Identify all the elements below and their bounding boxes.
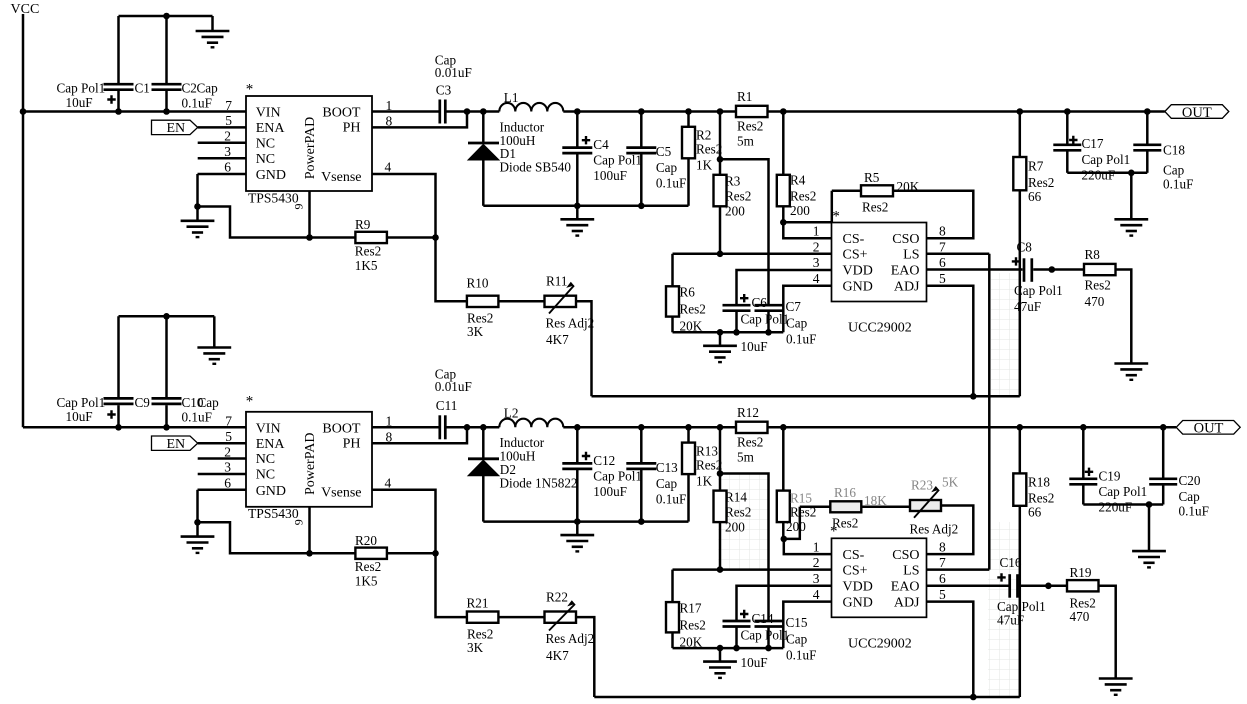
svg-text:Res2: Res2 <box>737 434 763 449</box>
capacitor C16 47uF <box>997 555 1046 628</box>
capacitor C17 220uF <box>1053 112 1130 183</box>
wire BOOT pin 1 to C11 <box>372 426 439 429</box>
svg-text:R13: R13 <box>696 443 718 458</box>
svg-text:Diode SB540: Diode SB540 <box>500 160 572 175</box>
svg-text:Res Adj2: Res Adj2 <box>546 631 595 646</box>
resistor R9 1K5 <box>355 217 387 273</box>
wire local analog ground rail <box>673 286 832 346</box>
IC U1 TPS5430 <box>224 81 392 209</box>
svg-text:Cap Pol1: Cap Pol1 <box>593 468 642 483</box>
svg-text:1K5: 1K5 <box>355 574 378 589</box>
wire Vsense pin 4 down to divider (bottom) <box>372 490 467 617</box>
wire ADJ row (bottom) <box>594 694 1020 701</box>
wire GND net jog to R20 row <box>198 522 356 553</box>
capacitor C10 0.1uF <box>152 316 220 427</box>
svg-text:ADJ: ADJ <box>894 595 920 610</box>
svg-text:470: 470 <box>1085 294 1105 309</box>
svg-text:LS: LS <box>903 248 919 263</box>
svg-text:4: 4 <box>385 160 392 175</box>
svg-text:R18: R18 <box>1028 475 1050 490</box>
svg-text:2: 2 <box>813 239 820 254</box>
svg-text:*: * <box>246 393 254 409</box>
wire NC pin 2 stub <box>198 141 246 144</box>
wire R22 down to ADJ row (bottom) <box>576 617 595 697</box>
svg-text:BOOT: BOOT <box>322 421 361 436</box>
svg-text:C15: C15 <box>786 615 808 630</box>
svg-text:Cap: Cap <box>656 476 678 491</box>
resistor R6 20K <box>666 254 706 334</box>
svg-text:0.1uF: 0.1uF <box>656 491 686 506</box>
capacitor C6 10uF <box>723 294 790 354</box>
wire R5 to CSO pin 8 <box>893 191 973 239</box>
svg-text:C17: C17 <box>1082 136 1104 151</box>
svg-text:CSO: CSO <box>892 232 919 247</box>
svg-text:C1: C1 <box>135 81 150 96</box>
svg-text:C13: C13 <box>656 460 678 475</box>
svg-text:C3: C3 <box>436 82 452 97</box>
svg-text:8: 8 <box>939 224 946 239</box>
resistor R10 3K <box>467 276 499 340</box>
svg-text:VIN: VIN <box>256 106 281 121</box>
wire NC pin 3 stub <box>198 157 246 160</box>
svg-text:EN: EN <box>167 437 186 452</box>
svg-text:PowerPAD: PowerPAD <box>303 433 318 496</box>
svg-text:UCC29002: UCC29002 <box>848 321 912 336</box>
wire ENA pin 5 (bottom) <box>198 442 246 445</box>
wire Vsense pin 4 down to divider <box>372 174 467 301</box>
wire GND pin 6 to ground <box>194 174 246 221</box>
resistor R14 200 (shunt left tap) <box>714 427 752 569</box>
wire output rail right of shunt <box>768 108 1165 115</box>
svg-text:1K: 1K <box>696 158 713 173</box>
svg-text:200: 200 <box>725 519 745 534</box>
svg-text:Res2: Res2 <box>680 302 706 317</box>
svg-text:CS+: CS+ <box>843 248 868 263</box>
wire CS- node to R16 and pin 1 (bottom) <box>784 507 832 554</box>
ground output filter (top) <box>560 219 594 235</box>
wire C8 to R8 <box>1033 266 1084 273</box>
capacitor C20 0.1uF <box>1149 427 1209 518</box>
capacitor C2 0.1uF <box>152 16 219 112</box>
wire C19-C20 ground link <box>1083 501 1163 551</box>
svg-text:0.1uF: 0.1uF <box>786 332 816 347</box>
svg-text:Res2: Res2 <box>1028 491 1054 506</box>
wire NC pin 3 stub (bottom) <box>198 473 246 476</box>
svg-text:R10: R10 <box>467 276 489 291</box>
svg-text:R15: R15 <box>790 490 812 505</box>
wire C17-C18 ground link <box>1067 170 1147 220</box>
svg-text:5K: 5K <box>942 475 959 490</box>
svg-text:VCC: VCC <box>11 2 40 17</box>
capacitor C19 220uF <box>1069 427 1147 514</box>
svg-text:7: 7 <box>225 414 232 429</box>
svg-text:1: 1 <box>813 539 820 554</box>
wire LS pin 7 row (bottom, to share bus) <box>927 568 990 571</box>
svg-text:0.01uF: 0.01uF <box>435 65 472 80</box>
svg-text:R8: R8 <box>1085 247 1101 262</box>
wire R16 to R23 <box>861 506 910 509</box>
svg-text:6: 6 <box>224 475 231 490</box>
svg-text:NC: NC <box>256 152 275 167</box>
svg-text:10uF: 10uF <box>66 409 93 424</box>
svg-text:R19: R19 <box>1070 565 1092 580</box>
svg-text:C4: C4 <box>593 137 609 152</box>
wire VCC vertical bus <box>22 14 25 427</box>
svg-text:GND: GND <box>256 168 286 183</box>
svg-text:C9: C9 <box>135 395 151 410</box>
wire CS+ row <box>673 251 832 258</box>
svg-text:ENA: ENA <box>256 437 286 452</box>
svg-text:Res2: Res2 <box>725 504 751 519</box>
svg-text:2: 2 <box>224 444 231 459</box>
svg-text:5m: 5m <box>737 134 755 149</box>
svg-text:3K: 3K <box>467 640 484 655</box>
svg-text:R6: R6 <box>680 285 696 300</box>
capacitor C8 47uF <box>1012 240 1063 315</box>
svg-text:Cap Pol1: Cap Pol1 <box>741 627 790 642</box>
resistor R5 20K <box>832 170 920 215</box>
svg-text:C14: C14 <box>752 611 774 626</box>
svg-text:C20: C20 <box>1179 473 1201 488</box>
svg-text:5: 5 <box>939 587 946 602</box>
svg-text:0.1uF: 0.1uF <box>1163 177 1193 192</box>
ground UCC29002 (bottom) <box>703 662 737 678</box>
wire GND net jog to R9 row <box>198 207 356 238</box>
svg-text:GND: GND <box>843 595 873 610</box>
wire R23 to CSO pin 8 (bottom) <box>927 506 974 555</box>
capacitor C5 0.1uF <box>626 112 686 206</box>
svg-text:6: 6 <box>939 255 946 270</box>
svg-text:EAO: EAO <box>891 264 920 279</box>
grid artifact patch top <box>991 273 1020 397</box>
svg-text:CS-: CS- <box>843 232 865 247</box>
svg-text:R12: R12 <box>737 405 759 420</box>
svg-text:2: 2 <box>813 555 820 570</box>
svg-text:ADJ: ADJ <box>894 280 920 295</box>
resistor R7 66 <box>1013 112 1054 397</box>
grid artifact patch bottom-right <box>988 522 1020 696</box>
svg-text:100uH: 100uH <box>500 449 536 464</box>
svg-text:100uF: 100uF <box>593 484 627 499</box>
svg-text:*: * <box>832 208 840 224</box>
svg-text:Res2: Res2 <box>1085 278 1111 293</box>
svg-text:R17: R17 <box>680 600 702 615</box>
wire R8 to ground <box>1116 270 1132 364</box>
svg-text:PH: PH <box>343 121 361 136</box>
svg-text:4: 4 <box>813 271 820 286</box>
wire ADJ pin 5 riser <box>927 286 974 397</box>
wire R9 to Vsense node <box>387 234 439 241</box>
svg-text:R20: R20 <box>355 533 377 548</box>
svg-text:Cap Pol1: Cap Pol1 <box>57 395 106 410</box>
svg-text:L1: L1 <box>504 90 519 105</box>
svg-text:10uF: 10uF <box>741 655 768 670</box>
wire ADJ pin 5 riser (bottom) <box>927 602 974 697</box>
wire C11 to switch node (bottom) <box>447 424 500 431</box>
svg-text:1K5: 1K5 <box>355 258 378 273</box>
ground bottom-left <box>197 348 231 364</box>
svg-text:1K: 1K <box>696 473 713 488</box>
svg-text:EAO: EAO <box>891 580 920 595</box>
capacitor C12 100uF <box>562 427 642 521</box>
svg-text:47uF: 47uF <box>1014 299 1041 314</box>
wire CS+ row (bottom) <box>673 566 832 573</box>
wire VDD row (bottom) <box>737 586 832 622</box>
net label VCC <box>11 2 40 17</box>
svg-text:R16: R16 <box>834 485 856 500</box>
svg-text:C12: C12 <box>593 453 615 468</box>
wire PH pin 8 riser (bottom) <box>372 427 467 443</box>
svg-text:UCC29002: UCC29002 <box>848 636 912 651</box>
potentiometer R11 Res Adj2 4K7 <box>545 274 595 348</box>
svg-text:5m: 5m <box>737 449 755 464</box>
resistor R20 1K5 <box>355 533 387 589</box>
svg-text:7: 7 <box>939 239 946 254</box>
svg-text:200: 200 <box>725 204 745 219</box>
ground R8 (top) <box>1114 364 1148 380</box>
capacitor C13 0.1uF <box>626 427 686 521</box>
svg-text:Cap Pol1: Cap Pol1 <box>741 312 790 327</box>
svg-text:Vsense: Vsense <box>321 170 361 185</box>
svg-text:Cap Pol1: Cap Pol1 <box>1014 283 1063 298</box>
svg-text:4K7: 4K7 <box>546 648 569 663</box>
wire local analog ground rail (bottom) <box>673 602 832 662</box>
svg-text:R23: R23 <box>911 478 933 493</box>
svg-text:4: 4 <box>385 475 392 490</box>
wire R20 to Vsense node (bottom) <box>387 550 439 557</box>
svg-text:TPS5430: TPS5430 <box>248 190 299 205</box>
inductor L2 100uH <box>499 406 563 464</box>
diode D1 SB540 <box>468 112 571 206</box>
capacitor C3 0.01uF (boot) <box>435 52 472 123</box>
svg-text:Cap Pol1: Cap Pol1 <box>1099 484 1148 499</box>
svg-text:470: 470 <box>1070 609 1090 624</box>
pin 9 PowerPAD wire (bottom) <box>306 507 313 557</box>
wire R19 to ground <box>1099 586 1116 679</box>
wire switch output rail (bottom) <box>563 424 736 431</box>
resistor R1 5m shunt <box>736 89 768 149</box>
svg-text:R2: R2 <box>696 128 711 143</box>
resistor R12 5m shunt <box>736 405 768 465</box>
svg-text:PH: PH <box>343 436 361 451</box>
svg-text:LS: LS <box>903 563 919 578</box>
EN flag (bottom converter enable) <box>152 436 198 452</box>
resistor R15 200 (shunt right tap) <box>777 427 817 542</box>
svg-text:10uF: 10uF <box>66 95 93 110</box>
svg-text:220uF: 220uF <box>1099 500 1133 515</box>
resistor R3 200 (shunt left tap) <box>714 112 752 254</box>
potentiometer R22 Res Adj2 4K7 <box>545 590 595 663</box>
svg-text:Vsense: Vsense <box>321 486 361 501</box>
svg-text:VDD: VDD <box>843 264 873 279</box>
resistor R4 200 (shunt right tap) <box>777 112 817 226</box>
svg-text:OUT: OUT <box>1194 421 1224 437</box>
svg-text:TPS5430: TPS5430 <box>248 506 299 521</box>
ground UCC29002 (top) <box>703 346 737 362</box>
svg-text:10uF: 10uF <box>741 339 768 354</box>
svg-text:0.1uF: 0.1uF <box>182 410 212 425</box>
wire BOOT pin 1 to C3 <box>372 110 439 113</box>
EN flag (top converter enable) <box>152 120 198 136</box>
wire VDD row <box>737 270 832 306</box>
capacitor C11 0.01uF (boot) <box>435 366 472 439</box>
svg-text:66: 66 <box>1028 505 1042 520</box>
diode D2 1N5822 <box>468 427 578 521</box>
wire top input rail to VIN <box>23 110 246 113</box>
svg-text:3: 3 <box>813 571 820 586</box>
svg-text:R14: R14 <box>725 489 747 504</box>
svg-text:C19: C19 <box>1099 469 1121 484</box>
wire output rail right of shunt (bottom) <box>768 424 1177 431</box>
wire D2-C12-C13 ground rail <box>483 518 688 535</box>
svg-text:5: 5 <box>225 429 232 444</box>
svg-text:GND: GND <box>256 484 286 499</box>
svg-text:9: 9 <box>292 204 306 210</box>
svg-text:Cap: Cap <box>198 395 220 410</box>
svg-text:7: 7 <box>939 555 946 570</box>
svg-text:Res2: Res2 <box>696 142 722 157</box>
svg-text:Res2: Res2 <box>696 457 722 472</box>
svg-text:66: 66 <box>1028 189 1042 204</box>
wire ADJ row (top) <box>592 393 1020 400</box>
svg-text:R1: R1 <box>737 89 752 104</box>
svg-text:PowerPAD: PowerPAD <box>303 117 318 180</box>
ground output caps (bottom) <box>1132 551 1166 567</box>
pin 9 PowerPAD wire <box>306 191 313 241</box>
IC U3 TPS5430 (bottom) <box>224 393 392 525</box>
svg-text:C5: C5 <box>656 144 672 159</box>
svg-text:3K: 3K <box>467 324 484 339</box>
svg-text:Cap: Cap <box>786 316 808 331</box>
wire EAO to C8 <box>927 268 1023 271</box>
svg-text:OUT: OUT <box>1182 105 1212 121</box>
wire CS- node to R5 and pin 1 <box>783 191 832 239</box>
resistor R19 470 <box>1067 565 1099 624</box>
svg-text:R3: R3 <box>725 174 741 189</box>
svg-text:Res2: Res2 <box>680 617 706 632</box>
svg-text:NC: NC <box>256 468 275 483</box>
svg-text:CS-: CS- <box>843 548 865 563</box>
svg-text:3: 3 <box>224 144 231 159</box>
svg-text:Res2: Res2 <box>790 189 816 204</box>
svg-text:Cap: Cap <box>1163 163 1185 178</box>
svg-text:9: 9 <box>292 519 306 525</box>
ground at TPS5430 (bottom) <box>181 537 215 553</box>
resistor R18 66 <box>1013 427 1054 697</box>
svg-text:Res2: Res2 <box>862 200 888 215</box>
svg-text:CS+: CS+ <box>843 563 868 578</box>
IC U4 UCC29002 (bottom) <box>813 538 946 651</box>
svg-text:0.1uF: 0.1uF <box>182 95 212 110</box>
svg-text:R11: R11 <box>546 274 568 289</box>
svg-text:220uF: 220uF <box>1082 168 1116 183</box>
svg-text:*: * <box>246 81 254 97</box>
svg-text:0.1uF: 0.1uF <box>1179 504 1209 519</box>
ground top-left <box>196 31 230 47</box>
resistor R2 1K <box>682 112 722 206</box>
svg-text:BOOT: BOOT <box>322 106 361 121</box>
svg-text:C11: C11 <box>436 398 458 413</box>
svg-text:6: 6 <box>939 571 946 586</box>
svg-text:VDD: VDD <box>843 580 873 595</box>
svg-text:C2: C2 <box>182 81 197 96</box>
svg-text:Cap: Cap <box>656 160 678 175</box>
svg-text:*: * <box>830 523 838 539</box>
svg-text:Cap Pol1: Cap Pol1 <box>57 81 106 96</box>
svg-text:100uH: 100uH <box>500 133 536 148</box>
ground R19 (bottom) <box>1099 679 1133 695</box>
wire shunt-left sense branch to C7 <box>720 159 769 305</box>
potentiometer R23 Res Adj2 5K <box>910 475 959 537</box>
svg-text:Cap: Cap <box>786 631 808 646</box>
svg-text:5: 5 <box>225 113 232 128</box>
capacitor C4 100uF <box>562 112 642 206</box>
svg-text:Cap: Cap <box>197 81 219 96</box>
svg-text:R9: R9 <box>355 217 371 232</box>
wire PH pin 8 riser <box>372 112 467 128</box>
ground at TPS5430 (top) <box>181 221 215 237</box>
svg-text:Res Adj2: Res Adj2 <box>546 315 595 330</box>
svg-text:L2: L2 <box>504 406 519 421</box>
wire switch output rail <box>563 108 736 115</box>
svg-text:1: 1 <box>813 224 820 239</box>
svg-text:Cap Pol1: Cap Pol1 <box>1082 152 1131 167</box>
capacitor C9 10uF <box>57 316 151 427</box>
svg-text:R4: R4 <box>790 173 806 188</box>
svg-text:Cap: Cap <box>1179 489 1201 504</box>
svg-text:3: 3 <box>813 255 820 270</box>
svg-text:NC: NC <box>256 136 275 151</box>
svg-text:7: 7 <box>225 98 232 113</box>
svg-text:C18: C18 <box>1163 143 1185 158</box>
wire ENA pin 5 <box>198 126 246 129</box>
wire C1-C2-ground top link <box>119 13 213 31</box>
svg-text:4: 4 <box>813 587 820 602</box>
wire R21 to R22 <box>499 616 546 619</box>
resistor R17 20K <box>666 570 706 650</box>
svg-text:C16: C16 <box>1000 555 1022 570</box>
svg-text:Res2: Res2 <box>355 559 381 574</box>
svg-text:4K7: 4K7 <box>546 332 569 347</box>
inductor L1 100uH <box>499 90 563 148</box>
ground output filter (bottom) <box>560 535 594 551</box>
capacitor C18 0.1uF <box>1133 112 1193 192</box>
OUT flag (top) <box>1165 105 1229 121</box>
svg-text:C7: C7 <box>786 299 802 314</box>
svg-text:VIN: VIN <box>256 421 281 436</box>
svg-text:6: 6 <box>224 160 231 175</box>
IC U2 UCC29002 (top) <box>813 208 946 335</box>
svg-text:ENA: ENA <box>256 121 286 136</box>
svg-text:100uF: 100uF <box>593 168 627 183</box>
wire LS share bus <box>927 254 990 570</box>
resistor R21 3K <box>467 596 499 655</box>
svg-text:EN: EN <box>167 121 186 136</box>
svg-text:R5: R5 <box>864 170 880 185</box>
wire bottom input rail to VIN <box>23 424 246 431</box>
svg-text:200: 200 <box>790 203 810 218</box>
wire C3 to switch node <box>447 108 500 115</box>
svg-text:R7: R7 <box>1028 159 1044 174</box>
svg-text:R21: R21 <box>467 596 489 611</box>
capacitor C14 10uF <box>723 610 790 670</box>
svg-text:Res Adj2: Res Adj2 <box>910 522 959 537</box>
resistor R13 1K <box>682 427 722 521</box>
grid artifact patch bottom-middle <box>718 473 769 570</box>
wire R11 down to ADJ row <box>576 301 592 396</box>
wire GND pin 6 to ground (bottom) <box>194 490 246 537</box>
wire NC pin 2 stub (bottom) <box>198 457 246 460</box>
